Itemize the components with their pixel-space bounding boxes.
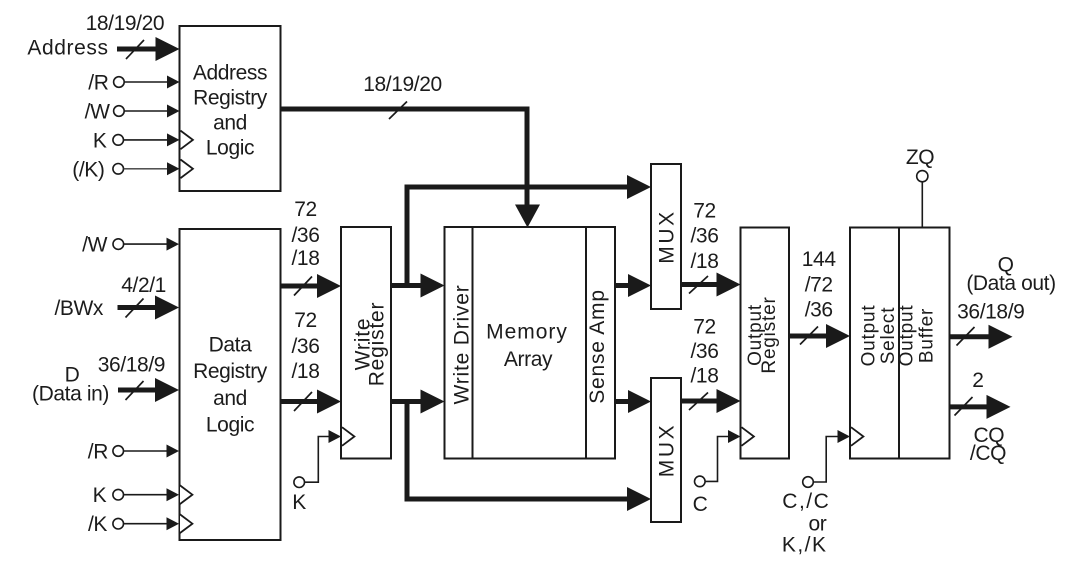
input C,/C or K,/K clock to Output Select: pad circle bbox=[803, 477, 814, 488]
arrowhead: upper data bus into Write Register bbox=[317, 274, 341, 298]
wire: Write Register to Write Driver (upper) with bypass branch bbox=[391, 283, 422, 288]
svg-text:/18: /18 bbox=[292, 247, 320, 270]
input K clock to Write Register: pad circle bbox=[294, 477, 305, 488]
clock triangle: /K on Data Registry bbox=[180, 514, 192, 533]
wire: upper bypass branch (vertical at x=407) bbox=[407, 187, 627, 288]
svg-text:/K: /K bbox=[88, 513, 107, 536]
divider Write Driver / Memory Array bbox=[472, 227, 474, 459]
wire: /W to Data Registry bbox=[124, 243, 167, 245]
arrowhead: D input bus bbox=[155, 378, 179, 402]
arrowhead: /W bbox=[167, 105, 180, 118]
input K to Address Registry: pad circle bbox=[113, 135, 124, 146]
svg-text:/36: /36 bbox=[805, 299, 833, 322]
svg-text:Logic: Logic bbox=[206, 137, 254, 160]
svg-text:Registry: Registry bbox=[193, 360, 268, 383]
svg-text:Sense Amp: Sense Amp bbox=[586, 289, 609, 404]
svg-text:Write Driver: Write Driver bbox=[451, 284, 474, 404]
wire: /K to Data Registry bbox=[124, 523, 168, 525]
wire: data bus Data Registry to Write Register (lower) bbox=[281, 399, 319, 404]
svg-text:Array: Array bbox=[504, 348, 553, 371]
arrowhead: C clock bbox=[728, 430, 741, 443]
svg-text:(/K): (/K) bbox=[72, 158, 104, 181]
svg-text:Buffer: Buffer bbox=[917, 308, 938, 363]
svg-text:/36: /36 bbox=[691, 340, 719, 363]
clock triangle: Output Register bbox=[742, 427, 754, 446]
arrowhead: CQ output bbox=[987, 395, 1011, 419]
arrowhead: upper bus into Write Driver bbox=[421, 274, 445, 298]
slash: address bus width mark bbox=[389, 102, 407, 120]
wire: /BWx input bus shaft bbox=[118, 305, 157, 310]
wire: lower bypass branch (vertical at x=407 down to y=499) bbox=[407, 399, 627, 499]
arrowhead: address bus into Memory Array (down) bbox=[515, 205, 540, 228]
clock triangle: K on Address Registry bbox=[181, 131, 193, 150]
pin ZQ: pad circle bbox=[917, 171, 928, 182]
wire: C,/C or K,/K clock to Output Select bbox=[813, 437, 838, 483]
svg-text:/72: /72 bbox=[805, 273, 833, 296]
svg-text:72: 72 bbox=[294, 309, 317, 332]
arrowhead: Sense Amp to top MUX bbox=[628, 274, 651, 297]
block U3 Write Register bbox=[341, 227, 391, 459]
wire: /R to Data Registry bbox=[124, 450, 168, 452]
slash: bottom MUX bus width mark bbox=[689, 393, 708, 411]
svg-text:MUX: MUX bbox=[656, 423, 679, 477]
input /W to Data Registry: pad circle bbox=[113, 239, 124, 250]
wire: Address input bus shaft bbox=[117, 47, 157, 52]
arrowhead: /BWx input bus bbox=[155, 296, 179, 320]
svg-text:(Data in): (Data in) bbox=[32, 383, 109, 406]
wire: top MUX to Output Register bbox=[681, 282, 717, 287]
arrowhead: Q data out bbox=[989, 325, 1013, 349]
arrowhead: lower data bus into Write Register bbox=[317, 390, 341, 414]
input C clock to Output Register: pad circle bbox=[695, 476, 706, 487]
svg-text:36/18/9: 36/18/9 bbox=[957, 301, 1024, 324]
block U2 Data Registry and Logic bbox=[180, 229, 281, 540]
svg-text:36/18/9: 36/18/9 bbox=[98, 354, 165, 377]
arrowhead: /K (Data Registry) bbox=[167, 517, 180, 530]
svg-text:Register: Register bbox=[759, 296, 780, 373]
svg-text:and: and bbox=[213, 112, 247, 135]
wire: C clock to Output Register bbox=[705, 437, 728, 482]
wire: 18/19/20 address bus from Address Registry to Memory Array bbox=[281, 109, 528, 205]
clock triangle: Write Register bbox=[342, 427, 354, 446]
wire: ZQ to Output Buffer bbox=[921, 182, 923, 228]
wire: Sense Amp to bottom MUX bbox=[615, 399, 629, 404]
svg-text:/R: /R bbox=[88, 72, 108, 95]
svg-text:/36: /36 bbox=[691, 225, 719, 248]
svg-text:/36: /36 bbox=[292, 224, 320, 247]
svg-text:/18: /18 bbox=[292, 360, 320, 383]
wire: CQ output bus bbox=[950, 404, 988, 409]
arrowhead: upper bypass into top MUX bbox=[627, 175, 651, 199]
input /R to Data Registry: pad circle bbox=[113, 446, 124, 457]
svg-text:Registry: Registry bbox=[193, 87, 268, 110]
slash: CQ bus width mark bbox=[955, 397, 973, 416]
arrowhead: (/K) bbox=[167, 162, 180, 175]
arrowhead: top MUX bus into Output Register bbox=[717, 273, 741, 297]
divider Memory Array / Sense Amp bbox=[585, 227, 587, 459]
svg-text:Address: Address bbox=[27, 37, 108, 60]
svg-text:K: K bbox=[93, 129, 107, 152]
svg-text:72: 72 bbox=[693, 200, 716, 223]
slash: Q bus width mark bbox=[957, 327, 975, 346]
svg-text:ZQ: ZQ bbox=[906, 146, 934, 169]
input /K to Data Registry: pad circle bbox=[113, 518, 124, 529]
svg-text:2: 2 bbox=[972, 369, 983, 392]
arrowhead: lower bus into Write Driver bbox=[421, 390, 445, 414]
block U5 MUX (top) bbox=[651, 164, 681, 309]
wire: /W to Address Registry bbox=[124, 110, 168, 112]
slash: 144/72/36 bus width mark bbox=[800, 327, 818, 345]
arrowhead: K bbox=[167, 133, 180, 146]
svg-text:Logic: Logic bbox=[206, 414, 254, 437]
slash: top MUX bus width mark bbox=[689, 276, 708, 294]
svg-text:72: 72 bbox=[693, 316, 716, 339]
input /W to Address Registry: pad circle bbox=[114, 106, 125, 117]
svg-text:K: K bbox=[292, 491, 306, 514]
wire: Output Register to Output Select bbox=[789, 334, 827, 339]
svg-text:(Data out): (Data out) bbox=[966, 272, 1055, 295]
svg-text:and: and bbox=[213, 387, 247, 410]
wire: (/K) to Address Registry bbox=[124, 168, 169, 170]
block U8 Output Select / Output Buffer (outer) bbox=[850, 228, 950, 459]
svg-text:C,/C: C,/C bbox=[782, 490, 830, 513]
arrowhead: lower bypass into bottom MUX bbox=[627, 487, 651, 511]
block U6 MUX (bottom) bbox=[651, 378, 681, 522]
wire: K clock to Write Register bbox=[305, 437, 330, 483]
svg-text:Output: Output bbox=[859, 305, 880, 367]
arrowhead: /R (Data Registry) bbox=[167, 445, 180, 458]
clock triangle: K on Data Registry bbox=[180, 485, 192, 504]
svg-text:/CQ: /CQ bbox=[970, 442, 1006, 465]
clock triangle: Output Select bbox=[851, 427, 863, 446]
svg-text:Output: Output bbox=[897, 305, 918, 367]
divider Output Select / Output Buffer bbox=[898, 228, 900, 459]
svg-text:/R: /R bbox=[88, 441, 108, 464]
block U4 Memory Array (outer) bbox=[445, 227, 616, 459]
svg-text:/BWx: /BWx bbox=[54, 297, 103, 320]
svg-text:K,/K: K,/K bbox=[782, 534, 828, 557]
svg-text:Memory: Memory bbox=[486, 321, 568, 344]
wire: /R to Address Registry bbox=[124, 81, 168, 83]
wire: bottom MUX to Output Register bbox=[681, 399, 717, 404]
input (/K) to Address Registry: pad circle bbox=[113, 164, 124, 175]
svg-text:or: or bbox=[808, 513, 826, 536]
arrowhead: into Output Select bbox=[826, 324, 850, 348]
svg-text:Address: Address bbox=[193, 62, 267, 85]
arrowhead: Address input bus bbox=[156, 37, 180, 61]
svg-text:18/19/20: 18/19/20 bbox=[86, 12, 165, 35]
wire: Q data out bus bbox=[950, 334, 990, 339]
arrowhead: K (Data Registry) bbox=[167, 488, 180, 501]
slash: /BWx bus width mark bbox=[126, 299, 144, 318]
arrowhead: K clock bbox=[329, 430, 342, 443]
svg-text:/36: /36 bbox=[292, 335, 320, 358]
arrowhead: C,/C or K,/K clock bbox=[838, 430, 851, 443]
svg-text:/18: /18 bbox=[691, 365, 719, 388]
wire: D (Data in) input bus shaft bbox=[118, 388, 156, 393]
wire: Write Register to Write Driver (lower) bbox=[391, 399, 422, 404]
svg-text:K: K bbox=[93, 484, 107, 507]
svg-text:C: C bbox=[693, 493, 708, 516]
block U1 Address Registry and Logic bbox=[180, 26, 281, 191]
arrowhead: /R bbox=[167, 76, 180, 89]
svg-text:18/19/20: 18/19/20 bbox=[363, 73, 442, 96]
arrowhead: bottom MUX bus into Output Register bbox=[717, 389, 741, 413]
svg-text:MUX: MUX bbox=[656, 209, 679, 263]
svg-text:/W: /W bbox=[82, 234, 107, 257]
svg-text:4/2/1: 4/2/1 bbox=[121, 274, 166, 297]
svg-text:72: 72 bbox=[294, 198, 317, 221]
slash: upper data bus width mark bbox=[294, 277, 312, 296]
arrowhead: Sense Amp to bottom MUX bbox=[628, 390, 651, 413]
block U7 Output Register bbox=[741, 228, 790, 459]
input /R to Address Registry: pad circle bbox=[114, 77, 125, 88]
svg-text:/W: /W bbox=[85, 101, 110, 124]
wire: data bus Data Registry to Write Register (upper) bbox=[281, 284, 319, 289]
wire: K to Data Registry bbox=[124, 494, 168, 496]
arrowhead: /W (Data Registry) bbox=[167, 238, 180, 251]
wire: K to Address Registry bbox=[124, 139, 169, 141]
svg-text:144: 144 bbox=[802, 248, 837, 271]
clock triangle: (/K) on Address Registry bbox=[181, 160, 193, 179]
slash: lower data bus width mark bbox=[294, 392, 312, 411]
svg-text:/18: /18 bbox=[691, 250, 719, 273]
input K to Data Registry: pad circle bbox=[113, 489, 124, 500]
wire: Sense Amp to top MUX bbox=[615, 283, 629, 288]
slash: Address bus width mark bbox=[126, 40, 144, 59]
svg-text:Data: Data bbox=[209, 334, 252, 357]
svg-text:Register: Register bbox=[366, 302, 389, 387]
slash: D bus width mark bbox=[126, 381, 144, 400]
